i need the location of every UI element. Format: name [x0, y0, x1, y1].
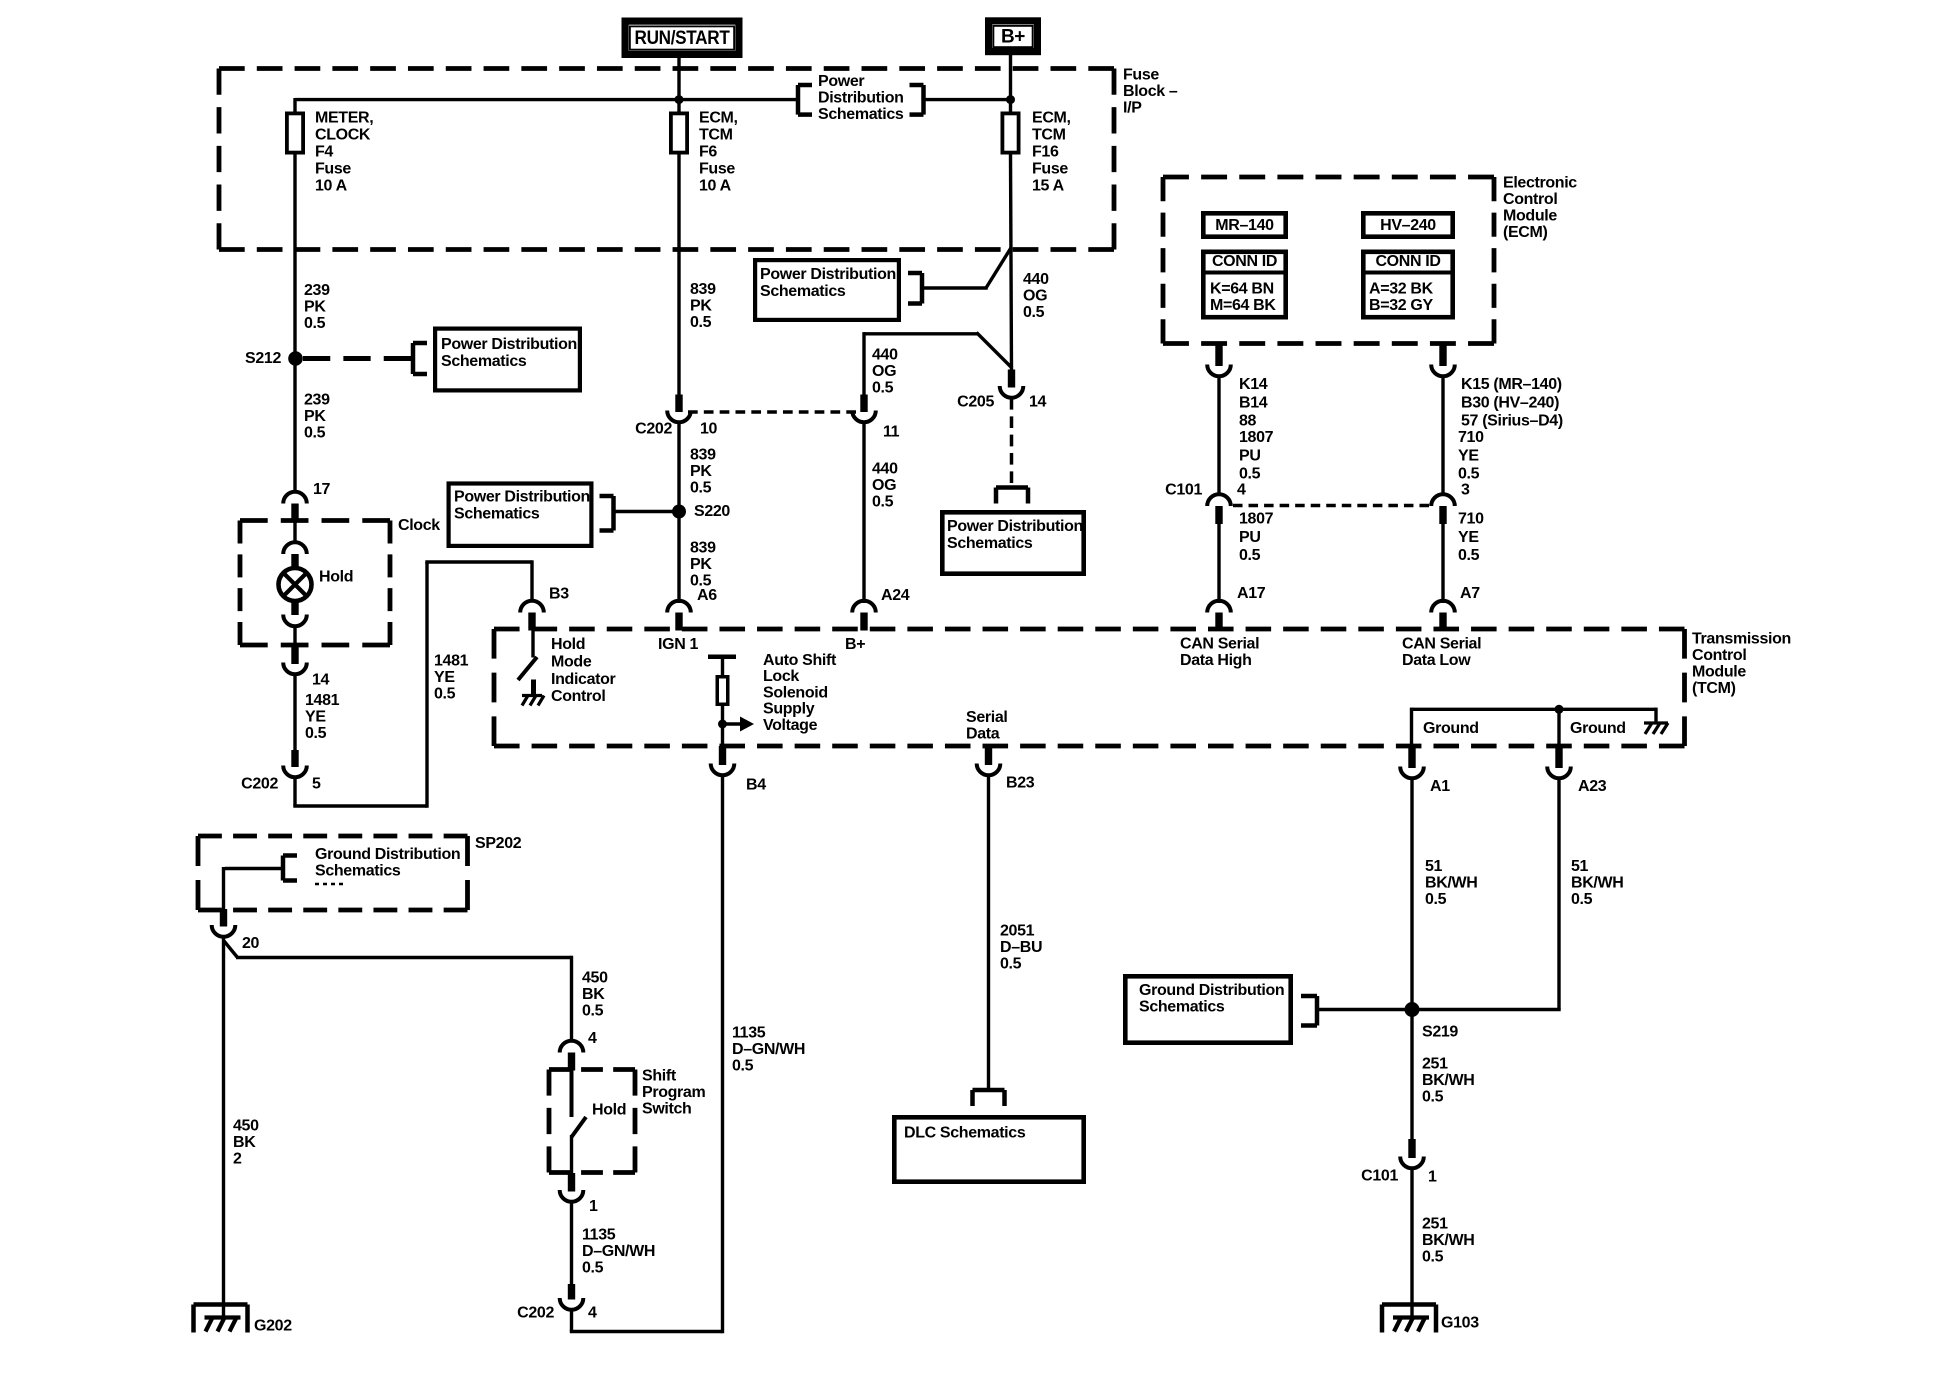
svg-text:Ground Distribution: Ground Distribution	[1139, 982, 1284, 999]
connector A6 at TCM	[667, 601, 691, 631]
label 839 PK 0.5 (above S220)	[690, 447, 716, 497]
svg-text:Data: Data	[966, 726, 1000, 743]
svg-text:Mode: Mode	[551, 653, 592, 670]
connector B4 at TCM	[711, 746, 735, 775]
svg-text:PU: PU	[1239, 447, 1261, 464]
connector B23 at TCM	[977, 746, 1001, 775]
svg-text:Ground: Ground	[1423, 720, 1479, 737]
svg-text:PK: PK	[690, 298, 712, 315]
fuse F4 METER CLOCK 10A	[287, 113, 303, 152]
svg-text:0.5: 0.5	[1239, 547, 1261, 564]
label K14 B14 88	[1239, 376, 1268, 430]
svg-text:Power: Power	[818, 73, 864, 90]
svg-text:C101: C101	[1165, 482, 1202, 499]
svg-text:10 A: 10 A	[699, 178, 732, 195]
ECM connector HV-240 box	[1363, 213, 1452, 236]
splice S219	[1405, 1002, 1420, 1017]
label 1135 D-GN/WH 0.5 (lower)	[582, 1227, 655, 1277]
label 450 BK 2	[233, 1118, 259, 1168]
svg-text:Schematics: Schematics	[454, 506, 540, 523]
wire S212 down to connector 17	[293, 365, 296, 492]
wire A1 to S219	[1410, 779, 1413, 1003]
svg-text:TCM: TCM	[699, 127, 733, 144]
wire corner into fuse F4	[293, 98, 296, 112]
svg-text:Control: Control	[551, 688, 605, 705]
svg-text:BK/WH: BK/WH	[1425, 875, 1477, 892]
connector pin 1 (shift switch)	[560, 1173, 584, 1202]
svg-text:Distribution: Distribution	[818, 90, 904, 107]
clock dashed box	[240, 518, 390, 523]
label fuse F16	[1032, 110, 1071, 195]
svg-text:1807: 1807	[1239, 429, 1274, 446]
svg-text:0.5: 0.5	[1458, 466, 1480, 483]
svg-text:G202: G202	[254, 1318, 292, 1335]
svg-text:YE: YE	[434, 669, 455, 686]
svg-text:0.5: 0.5	[690, 314, 712, 331]
svg-text:Fuse: Fuse	[1032, 161, 1068, 178]
svg-text:0.5: 0.5	[434, 686, 456, 703]
label 440 OG 0.5 (branch lower)	[872, 461, 898, 511]
wire K15 to C101-3	[1441, 376, 1444, 494]
label Fuse Block - I/P	[1123, 67, 1178, 117]
svg-text:Ground: Ground	[1570, 720, 1626, 737]
svg-text:Schematics: Schematics	[947, 535, 1033, 552]
dashed wire S212 to reference bracket	[303, 356, 411, 361]
power distribution schematics reference at S220	[449, 484, 679, 546]
svg-text:SP202: SP202	[475, 835, 522, 852]
svg-text:251: 251	[1422, 1216, 1448, 1233]
svg-text:(TCM): (TCM)	[1692, 680, 1736, 697]
label 2051 D-BU 0.5	[1000, 923, 1042, 973]
branch diagonal to power dist reference	[922, 247, 1012, 288]
wire RUN/START down to fuse F6	[677, 58, 680, 112]
svg-text:710: 710	[1458, 429, 1484, 446]
SP202 dashed box	[198, 834, 468, 839]
svg-text:B14: B14	[1239, 394, 1268, 411]
power distribution schematics reference at S212	[413, 329, 580, 391]
svg-text:A24: A24	[881, 587, 910, 604]
svg-text:1481: 1481	[434, 653, 469, 670]
svg-text:10 A: 10 A	[315, 178, 348, 195]
connector A1 at TCM	[1400, 746, 1424, 778]
svg-text:Power Distribution: Power Distribution	[760, 266, 896, 283]
svg-text:0.5: 0.5	[582, 1003, 604, 1020]
connector A23 at TCM	[1547, 746, 1571, 778]
svg-text:17: 17	[313, 481, 331, 498]
svg-text:Lock: Lock	[763, 668, 799, 685]
svg-text:0.5: 0.5	[1239, 466, 1261, 483]
wire C101-1 to G103	[1410, 1168, 1413, 1318]
svg-text:710: 710	[1458, 511, 1484, 528]
svg-text:OG: OG	[1023, 288, 1047, 305]
svg-text:0.5: 0.5	[1425, 891, 1447, 908]
svg-text:K15 (MR–140): K15 (MR–140)	[1461, 376, 1562, 393]
label 1807 PU 0.5 (lower)	[1239, 511, 1274, 565]
svg-text:A17: A17	[1237, 585, 1266, 602]
connector C101 pin 4	[1207, 494, 1231, 524]
svg-text:B30 (HV–240): B30 (HV–240)	[1461, 394, 1559, 411]
svg-text:0.5: 0.5	[1000, 956, 1022, 973]
label 1481 YE 0.5 (to B3)	[434, 653, 469, 703]
clock lamp socket top	[283, 521, 307, 569]
connector pin 14 (clock)	[283, 647, 307, 674]
svg-text:Switch: Switch	[642, 1101, 691, 1118]
svg-text:1: 1	[1428, 1169, 1437, 1186]
svg-text:D–GN/WH: D–GN/WH	[732, 1041, 805, 1058]
svg-text:88: 88	[1239, 413, 1257, 430]
svg-text:Schematics: Schematics	[1139, 999, 1225, 1016]
svg-text:B4: B4	[746, 777, 766, 794]
svg-text:Auto Shift: Auto Shift	[763, 652, 837, 669]
ECM dashed box	[1163, 175, 1494, 180]
svg-text:1481: 1481	[305, 692, 340, 709]
svg-text:PU: PU	[1239, 529, 1261, 546]
svg-text:A=32 BK: A=32 BK	[1369, 281, 1434, 298]
svg-text:14: 14	[312, 672, 330, 689]
svg-text:C101: C101	[1361, 1168, 1398, 1185]
svg-text:251: 251	[1422, 1056, 1448, 1073]
connector pin 11	[852, 395, 876, 423]
svg-text:440: 440	[872, 347, 898, 364]
svg-text:839: 839	[690, 281, 716, 298]
shift program switch dashed box	[549, 1067, 635, 1072]
C101 dotted link 4-3	[1233, 504, 1429, 508]
power feed RUN/START box	[625, 21, 739, 54]
svg-text:Power Distribution: Power Distribution	[947, 518, 1083, 535]
junction node at RUN/START wire	[675, 95, 684, 104]
connector C202 pin 10	[667, 395, 691, 423]
svg-text:1807: 1807	[1239, 511, 1274, 528]
label 710 YE 0.5 (lower)	[1458, 511, 1484, 565]
ground G202	[194, 1305, 248, 1333]
svg-text:A1: A1	[1430, 778, 1450, 795]
svg-text:CONN ID: CONN ID	[1212, 253, 1277, 270]
label CAN Serial Data Low	[1402, 636, 1481, 670]
label 839 PK 0.5 (below S220)	[690, 540, 716, 590]
svg-text:Program: Program	[642, 1084, 705, 1101]
svg-text:M=64 BK: M=64 BK	[1210, 297, 1276, 314]
svg-text:S212: S212	[245, 350, 281, 367]
wire A23 to S219	[1412, 779, 1561, 1010]
svg-text:BK/WH: BK/WH	[1422, 1232, 1474, 1249]
splice S212	[288, 351, 303, 366]
svg-text:Control: Control	[1503, 191, 1557, 208]
svg-text:B+: B+	[845, 636, 865, 653]
wire S220 to A6	[677, 518, 680, 603]
svg-text:0.5: 0.5	[582, 1260, 604, 1277]
connector C205 pin 14	[1000, 370, 1024, 398]
TCM dashed box	[494, 627, 1685, 632]
svg-text:2: 2	[233, 1151, 242, 1168]
svg-text:Schematics: Schematics	[441, 353, 527, 370]
label Transmission Control Module (TCM)	[1692, 631, 1791, 698]
svg-text:MR–140: MR–140	[1215, 217, 1274, 234]
label Auto Shift Lock Solenoid Supply Voltage	[763, 652, 837, 734]
svg-text:14: 14	[1029, 394, 1047, 411]
svg-text:Power Distribution: Power Distribution	[454, 489, 590, 506]
svg-text:5: 5	[312, 776, 321, 793]
svg-text:Schematics: Schematics	[315, 863, 401, 880]
svg-text:Voltage: Voltage	[763, 717, 818, 734]
svg-text:4: 4	[1237, 482, 1246, 499]
svg-text:Supply: Supply	[763, 701, 815, 718]
svg-text:CAN Serial: CAN Serial	[1402, 636, 1481, 653]
label Shift Program Switch	[642, 1068, 705, 1118]
svg-text:51: 51	[1571, 858, 1589, 875]
clock hold indicator lamp	[279, 568, 312, 601]
svg-text:C202: C202	[241, 776, 278, 793]
svg-text:Module: Module	[1692, 664, 1746, 681]
svg-text:A23: A23	[1578, 778, 1607, 795]
svg-text:Module: Module	[1503, 208, 1557, 225]
svg-text:Serial: Serial	[966, 709, 1008, 726]
svg-text:F4: F4	[315, 144, 333, 161]
svg-text:OG: OG	[872, 477, 896, 494]
svg-text:20: 20	[242, 935, 260, 952]
svg-text:C202: C202	[517, 1305, 554, 1322]
svg-text:D–GN/WH: D–GN/WH	[582, 1243, 655, 1260]
TCM internal ground bus	[1412, 708, 1657, 746]
branch wire to shift program switch	[224, 941, 572, 1042]
svg-text:0.5: 0.5	[1458, 547, 1480, 564]
fuse F6 ECM TCM 10A	[671, 113, 687, 152]
wire C101-4 to A17	[1217, 523, 1220, 603]
svg-text:BK: BK	[582, 986, 605, 1003]
svg-text:1: 1	[589, 1198, 598, 1215]
svg-text:4: 4	[588, 1305, 597, 1322]
svg-text:DLC Schematics: DLC Schematics	[904, 1125, 1026, 1142]
junction node (solenoid tap)	[718, 720, 727, 729]
label 239 PK 0.5 lower	[304, 392, 330, 442]
svg-text:F16: F16	[1032, 144, 1059, 161]
svg-text:IGN 1: IGN 1	[658, 636, 698, 653]
svg-text:S220: S220	[694, 503, 730, 520]
svg-text:METER,: METER,	[315, 110, 373, 127]
svg-text:Fuse: Fuse	[699, 161, 735, 178]
svg-text:BK/WH: BK/WH	[1422, 1072, 1474, 1089]
chassis ground hatch (TCM)	[1644, 723, 1668, 734]
svg-text:10: 10	[700, 421, 718, 438]
wire F6 to C202 pin 10	[677, 155, 680, 397]
svg-text:0.5: 0.5	[872, 494, 894, 511]
svg-text:YE: YE	[1458, 447, 1479, 464]
svg-text:239: 239	[304, 282, 330, 299]
svg-text:0.5: 0.5	[872, 380, 894, 397]
svg-text:BK/WH: BK/WH	[1571, 875, 1623, 892]
label Serial Data	[966, 709, 1008, 743]
svg-text:Solenoid: Solenoid	[763, 684, 828, 701]
svg-text:RUN/START: RUN/START	[635, 28, 731, 49]
label 710 YE 0.5 (upper)	[1458, 429, 1484, 483]
svg-text:Hold: Hold	[551, 636, 585, 653]
svg-text:0.5: 0.5	[304, 425, 326, 442]
label K15 B30 57	[1461, 376, 1563, 430]
label 839 PK 0.5 (above C202-10)	[690, 281, 716, 331]
svg-text:Power Distribution: Power Distribution	[441, 336, 577, 353]
power distribution schematics reference (F16)	[755, 260, 922, 320]
svg-text:K14: K14	[1239, 376, 1268, 393]
power distribution schematics reference (top)	[798, 73, 924, 123]
connector A7 at TCM	[1431, 601, 1455, 631]
wire 20 to G202	[222, 937, 225, 1318]
connector A17 at TCM	[1207, 601, 1231, 631]
svg-text:CONN ID: CONN ID	[1375, 253, 1440, 270]
label fuse F6	[699, 110, 738, 195]
arrow solenoid supply	[723, 717, 755, 732]
svg-text:11: 11	[883, 424, 900, 441]
svg-text:51: 51	[1425, 858, 1443, 875]
svg-text:C205: C205	[957, 394, 994, 411]
svg-text:Data High: Data High	[1180, 652, 1252, 669]
label 251 BK/WH 0.5 (lower)	[1422, 1216, 1474, 1266]
label fuse F4	[315, 110, 373, 195]
wire B23 to DLC reference	[987, 775, 990, 1090]
svg-text:YE: YE	[1458, 529, 1479, 546]
label 1135 D-GN/WH 0.5 (riser)	[732, 1025, 805, 1075]
label 1481 YE 0.5 (clock)	[305, 692, 340, 742]
svg-text:Schematics: Schematics	[760, 283, 846, 300]
power feed B+ box	[989, 21, 1038, 52]
svg-text:D–BU: D–BU	[1000, 939, 1042, 956]
svg-text:(ECM): (ECM)	[1503, 224, 1547, 241]
svg-text:A6: A6	[697, 587, 717, 604]
svg-text:Transmission: Transmission	[1692, 631, 1791, 648]
connector K14 at ECM	[1207, 344, 1231, 376]
wire B+ down to fuse F16	[1009, 55, 1012, 112]
wire F16 down to C205	[1011, 155, 1012, 372]
wire K14 to C101-4	[1217, 376, 1220, 494]
power distribution schematics reference (C205)	[942, 488, 1083, 574]
svg-text:Block –: Block –	[1123, 83, 1178, 100]
svg-text:0.5: 0.5	[304, 315, 326, 332]
bus wire y=99.6 right segment	[924, 98, 1011, 101]
svg-text:839: 839	[690, 447, 716, 464]
svg-text:I/P: I/P	[1123, 100, 1142, 117]
label 51 BK/WH 0.5 (A23)	[1571, 858, 1623, 908]
fuse block I/P dashed box	[219, 66, 1114, 71]
splice S220	[672, 505, 686, 519]
wire C202-10 to S220	[677, 422, 680, 505]
svg-text:Control: Control	[1692, 647, 1746, 664]
bus wire y=99.6 left segment	[295, 98, 798, 101]
label 440 OG 0.5 (branch upper)	[872, 347, 898, 397]
svg-text:0.5: 0.5	[690, 480, 712, 497]
branch wire to connector 11	[864, 332, 1012, 396]
svg-text:15 A: 15 A	[1032, 178, 1065, 195]
svg-text:1135: 1135	[732, 1025, 766, 1042]
svg-text:Data Low: Data Low	[1402, 652, 1471, 669]
svg-text:4: 4	[588, 1030, 597, 1047]
auto shift lock solenoid feed	[708, 657, 736, 746]
connector pin 17	[283, 492, 307, 522]
svg-text:0.5: 0.5	[1422, 1249, 1444, 1266]
connector K15 at ECM	[1431, 344, 1455, 376]
svg-text:0.5: 0.5	[1023, 304, 1045, 321]
svg-text:Hold: Hold	[319, 569, 353, 586]
svg-text:PK: PK	[690, 463, 712, 480]
CONN ID box (HV-240)	[1361, 252, 1455, 317]
svg-text:0.5: 0.5	[1571, 891, 1593, 908]
svg-text:Ground Distribution: Ground Distribution	[315, 846, 460, 863]
fuse F16 ECM TCM 15A	[1002, 113, 1018, 152]
svg-text:S219: S219	[1422, 1024, 1458, 1041]
svg-text:0.5: 0.5	[732, 1058, 754, 1075]
svg-text:0.5: 0.5	[1422, 1089, 1444, 1106]
C202 connector dotted link 10-11	[688, 410, 856, 414]
wire C101-3 to A7	[1441, 523, 1444, 603]
wire S219 to C101-1	[1410, 1016, 1413, 1140]
connector C101 pin 1	[1400, 1139, 1424, 1168]
svg-text:CLOCK: CLOCK	[315, 127, 371, 144]
junction node (ground bus)	[1555, 705, 1564, 714]
connector pin 4 (shift switch)	[560, 1041, 584, 1071]
clock lamp socket bottom	[283, 602, 307, 649]
svg-text:Indicator: Indicator	[551, 671, 616, 688]
svg-text:B3: B3	[549, 586, 569, 603]
svg-text:C202: C202	[635, 421, 672, 438]
svg-text:ECM,: ECM,	[1032, 110, 1071, 127]
svg-text:450: 450	[233, 1118, 259, 1135]
wire 11 to A24	[862, 422, 865, 603]
label 251 BK/WH 0.5 (upper)	[1422, 1056, 1474, 1106]
dashed wire C205 to reference	[1010, 398, 1014, 483]
shift program switch contacts	[572, 1068, 587, 1174]
connector A24 at TCM	[852, 601, 876, 631]
svg-text:1135: 1135	[582, 1227, 616, 1244]
wire 1 to C202-4	[570, 1202, 573, 1286]
svg-text:Electronic: Electronic	[1503, 175, 1577, 192]
wire C202-4 to B4 riser	[570, 775, 723, 1333]
label 51 BK/WH 0.5 (A1)	[1425, 858, 1477, 908]
CONN ID box (MR-140)	[1201, 252, 1288, 317]
svg-text:PK: PK	[304, 408, 326, 425]
label Electronic Control Module (ECM)	[1503, 175, 1577, 242]
label 239 PK 0.5 upper	[304, 282, 330, 332]
svg-text:Schematics: Schematics	[818, 106, 904, 123]
wire clock to C202 pin 5	[293, 674, 296, 751]
svg-text:Hold: Hold	[592, 1102, 626, 1119]
svg-text:2051: 2051	[1000, 923, 1035, 940]
svg-text:Clock: Clock	[398, 517, 440, 534]
svg-text:Fuse: Fuse	[1123, 67, 1159, 84]
svg-text:57 (Sirius–D4): 57 (Sirius–D4)	[1461, 413, 1563, 430]
svg-text:ECM,: ECM,	[699, 110, 738, 127]
svg-text:BK: BK	[233, 1134, 256, 1151]
connector pin 20 (SP202)	[212, 909, 236, 937]
connector C202 pin 5	[283, 750, 307, 777]
svg-text:0.5: 0.5	[305, 725, 327, 742]
ground distribution schematics reference (S219)	[1125, 976, 1412, 1042]
svg-text:A7: A7	[1460, 585, 1480, 602]
svg-text:B+: B+	[1001, 27, 1025, 48]
svg-text:PK: PK	[304, 299, 326, 316]
svg-text:239: 239	[304, 392, 330, 409]
ECM connector MR-140 box	[1203, 213, 1285, 236]
svg-text:Shift: Shift	[642, 1068, 677, 1085]
svg-text:B=32 GY: B=32 GY	[1369, 297, 1433, 314]
svg-text:OG: OG	[872, 363, 896, 380]
svg-text:F6: F6	[699, 144, 717, 161]
svg-text:G103: G103	[1441, 1315, 1479, 1332]
label 450 BK 0.5	[582, 970, 608, 1020]
ground G103	[1382, 1305, 1436, 1333]
svg-text:HV–240: HV–240	[1380, 217, 1436, 234]
wire F4 to S212	[293, 155, 296, 353]
label CAN Serial Data High	[1180, 636, 1259, 670]
label 440 OG 0.5 (F16)	[1023, 271, 1049, 321]
connector C202 pin 4	[560, 1284, 584, 1310]
svg-text:450: 450	[582, 970, 608, 987]
